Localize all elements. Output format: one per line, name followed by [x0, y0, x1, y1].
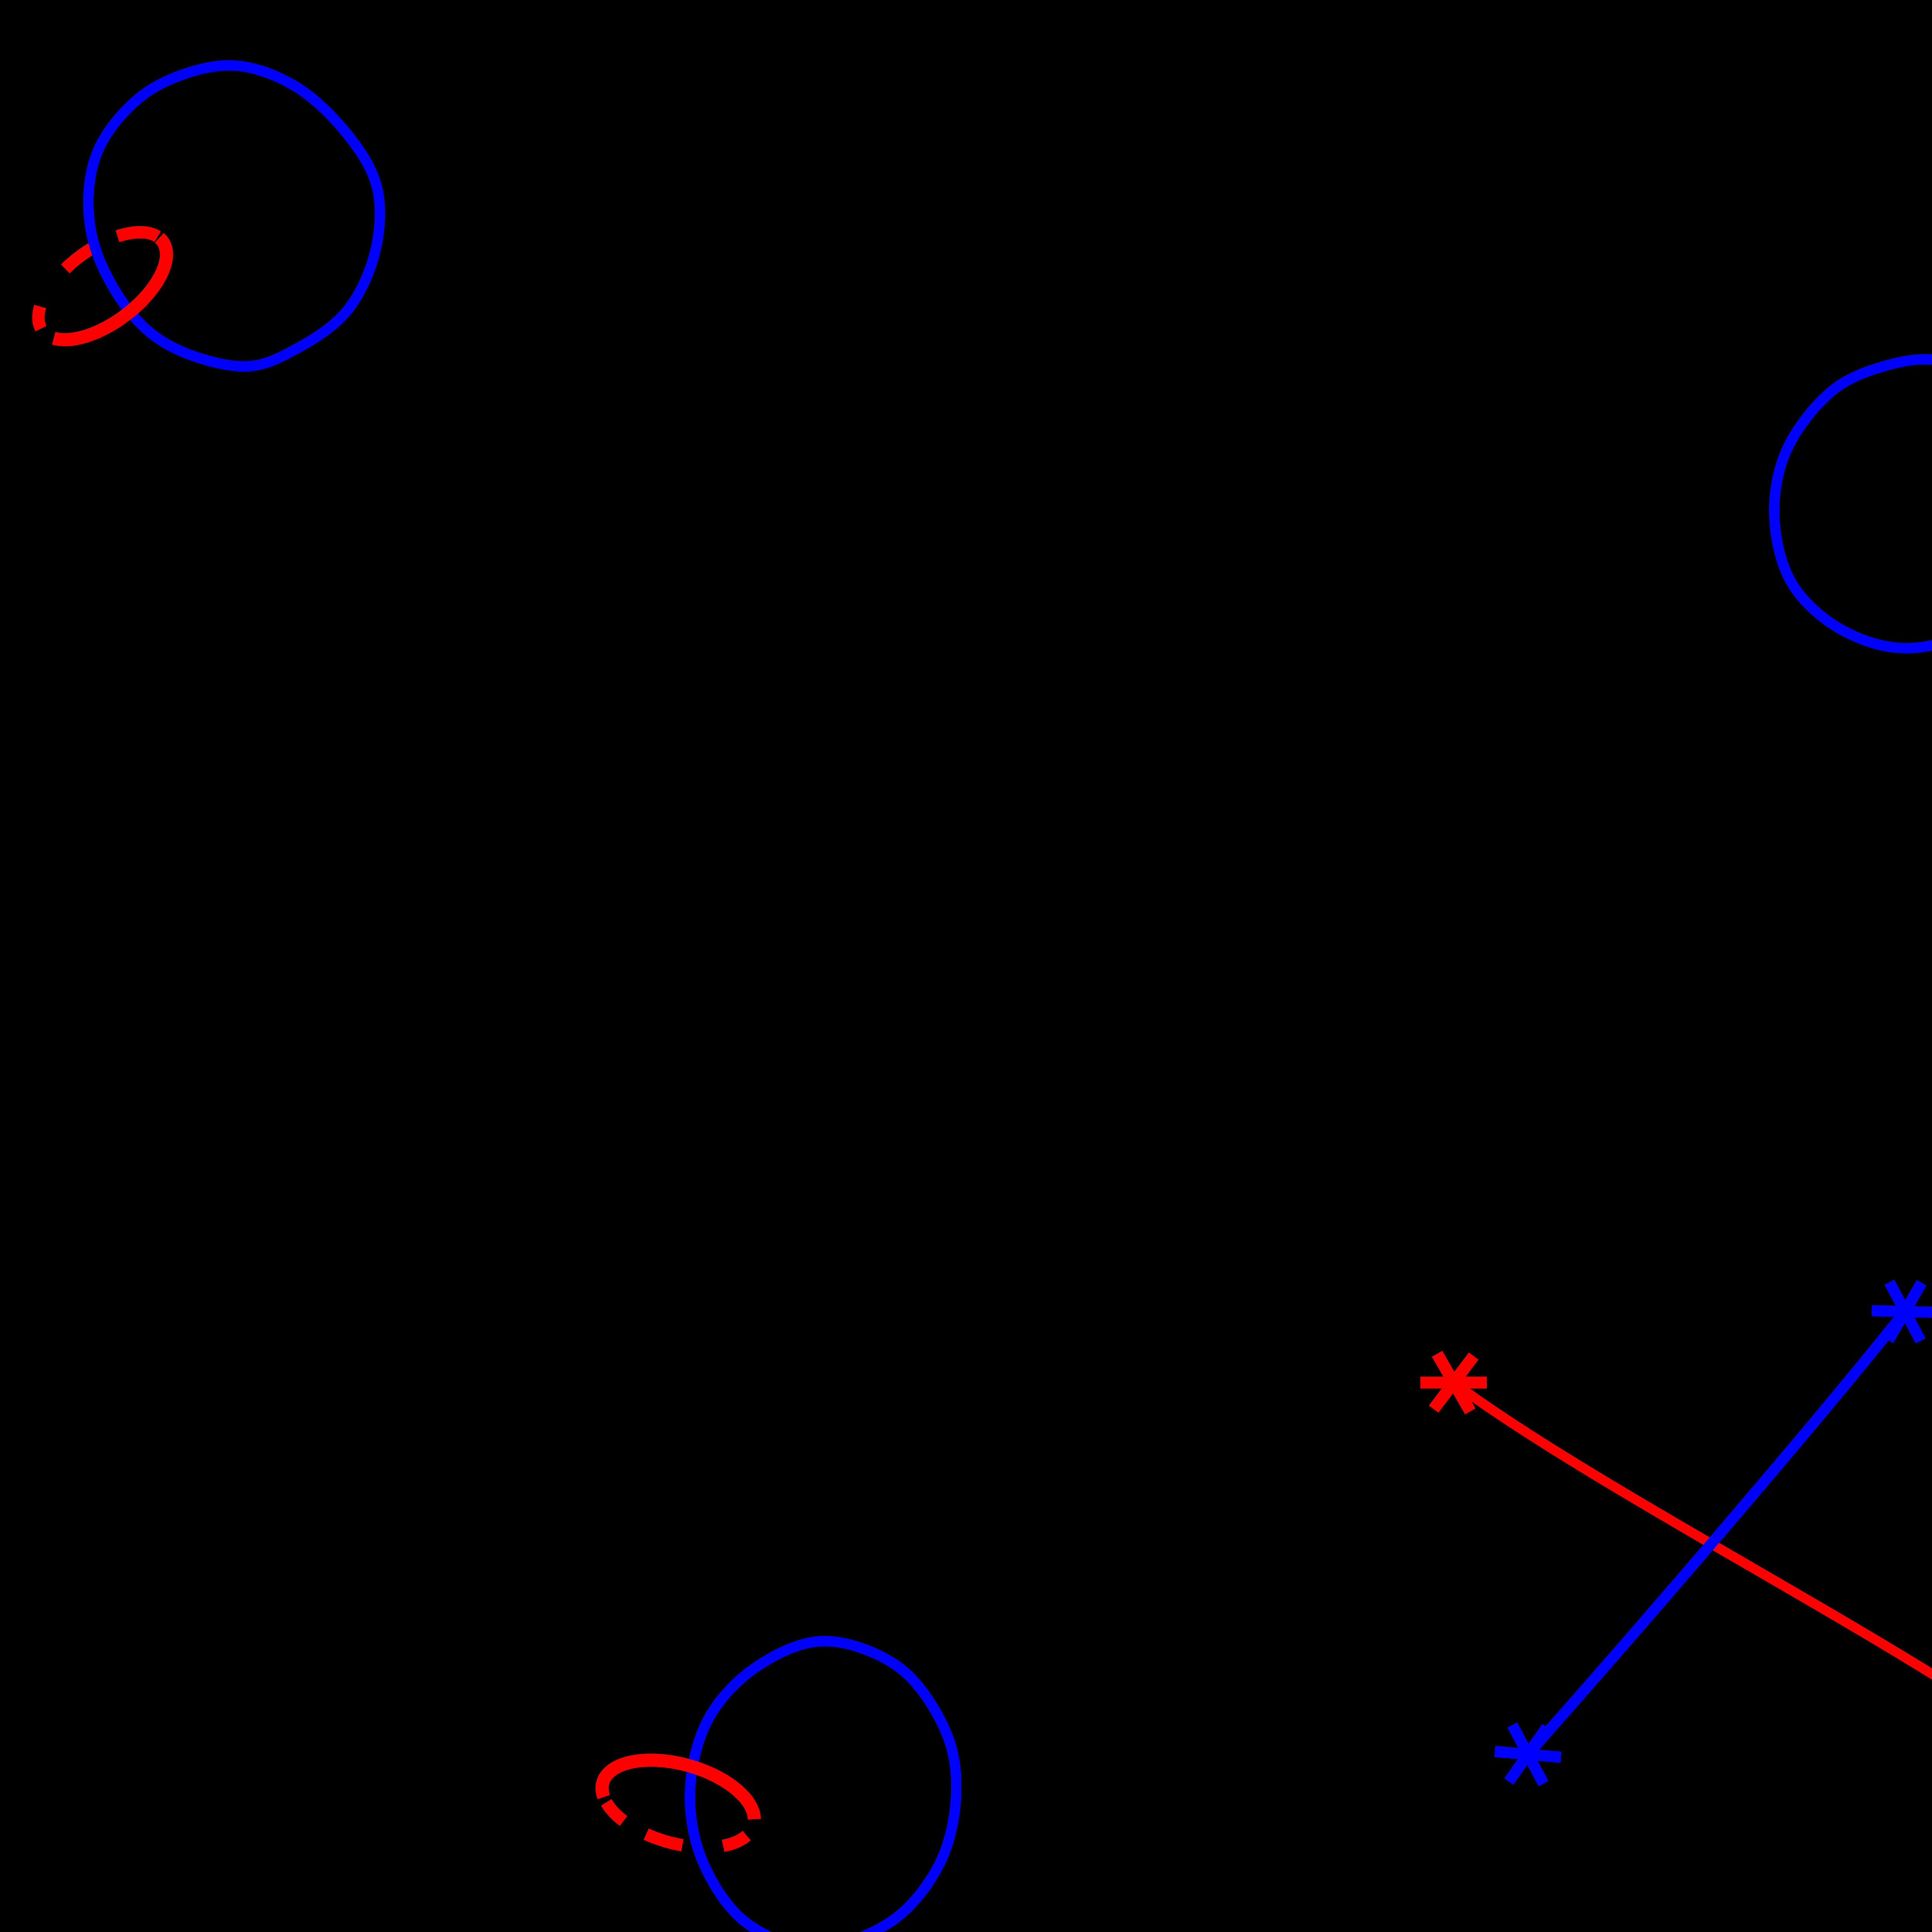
- meridian mu1 (meridian of K1) back dash 3: [38, 306, 41, 328]
- meridian mu3 (meridian of K3) back dash 1: [606, 1802, 624, 1821]
- blue arc connecting basepoint w1 to basepoint w2: [1528, 1311, 1905, 1754]
- basepoint w1 (blue asterisk, upper-right of X): [1872, 1282, 1932, 1341]
- knot K2 (right blue knot): [1774, 359, 1932, 648]
- red arc connecting basepoint z1 to basepoint z2: [1454, 1383, 1932, 1716]
- meridian mu3 (meridian of K3) back dash 3: [723, 1835, 747, 1846]
- knot K3 (bottom blue knot): [690, 1641, 956, 1932]
- meridian mu3 (meridian of K3) front solid arc: [602, 1760, 754, 1819]
- basepoint w2 (blue asterisk, lower-left of X): [1495, 1725, 1561, 1784]
- meridian mu1 (meridian of K1) back dash 1: [117, 232, 158, 237]
- meridian mu1 (meridian of K1) front solid arc: [54, 238, 167, 340]
- meridian mu1 (meridian of K1) back dash 2: [65, 248, 93, 269]
- knot K1 (top-left blue knot): [88, 65, 380, 366]
- meridian mu3 (meridian of K3) back dash 2: [646, 1834, 682, 1845]
- basepoint z1 (red asterisk, upper-left of X): [1420, 1354, 1487, 1412]
